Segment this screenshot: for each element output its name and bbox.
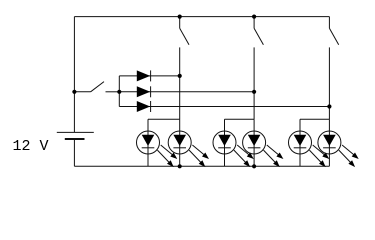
node: top bus / switch S2 <box>178 15 182 19</box>
wire: column 2 vertical <box>253 47 255 119</box>
node: bottom bus / LED D5 cathode <box>178 164 182 168</box>
wire: battery bottom lead <box>73 139 75 166</box>
wire: column 3 vertical <box>328 47 330 119</box>
switch S3 (top, column 2) <box>254 17 263 45</box>
wire: top bus <box>74 16 329 18</box>
wire: bracket over LED pair 3 <box>300 119 329 131</box>
LED D5 <box>168 131 209 167</box>
wire: top diode row <box>119 75 179 77</box>
switch S4 (top, column 3) <box>329 17 338 45</box>
wire: bracket over LED pair 2 <box>225 119 255 131</box>
LED D9 <box>318 131 359 167</box>
wire: bottom diode row <box>119 106 329 108</box>
diode D1 <box>137 70 151 81</box>
node: left vertical / switch S1 <box>72 90 76 94</box>
node: bottom bus / LED D7 cathode <box>252 164 256 168</box>
switch S1 (horizontal) <box>74 82 119 92</box>
wire: middle diode row <box>119 91 254 93</box>
LED D4 <box>137 131 178 167</box>
diode D3 <box>137 101 151 112</box>
wire: bracket over LED pair 1 <box>148 119 180 131</box>
diode D2 <box>137 86 151 97</box>
node: top diode row / column 1 <box>178 74 182 78</box>
node: diode bus / switch S1 <box>117 90 121 94</box>
wire: column 1 vertical <box>179 47 181 119</box>
LED D8 <box>289 131 330 167</box>
LED D7 <box>243 131 284 167</box>
svg-text:12 V: 12 V <box>13 138 49 155</box>
wire: left vertical battery lead <box>73 17 75 133</box>
LED D6 <box>213 131 254 167</box>
node: middle diode row / column 2 <box>252 90 256 94</box>
battery B1 <box>57 132 94 139</box>
node: bottom diode row / column 3 <box>327 104 331 108</box>
wire: diode bus vertical <box>118 76 120 107</box>
switch S2 (top, column 1) <box>180 17 189 45</box>
node: top bus / switch S3 <box>252 15 256 19</box>
wire: bottom bus <box>74 165 329 167</box>
